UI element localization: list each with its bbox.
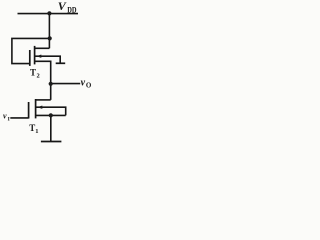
svg-text:T: T — [30, 67, 36, 77]
svg-text:O: O — [86, 81, 92, 89]
svg-text:v: v — [81, 77, 86, 88]
svg-text:v: v — [3, 112, 7, 121]
svg-text:2: 2 — [37, 72, 40, 79]
svg-text:I: I — [8, 117, 10, 123]
svg-text:DD: DD — [67, 5, 76, 14]
svg-text:V: V — [58, 0, 67, 13]
svg-text:1: 1 — [35, 128, 38, 135]
